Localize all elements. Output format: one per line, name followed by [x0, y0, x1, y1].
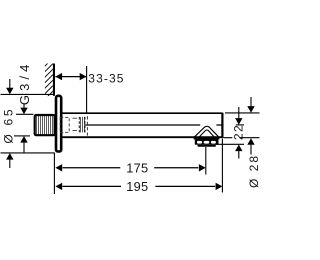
spout tip edge: [221, 113, 223, 138]
dim 175 line left segment: [63, 167, 121, 169]
spout tube top edge: [62, 112, 223, 114]
dim 195 line right segment: [155, 185, 215, 187]
hidden union nut (dashed): [60, 117, 69, 132]
dim 175 line right segment: [154, 167, 198, 169]
dim G3/4 bottom tick: [14, 135, 30, 137]
svg-text:33-35: 33-35: [88, 71, 124, 85]
dim 195 left arrow: [55, 183, 62, 190]
dim Ø65 top extension: [1, 93, 55, 95]
dim 195 line left segment: [63, 185, 122, 187]
svg-text:Ø 65: Ø 65: [1, 107, 15, 144]
threaded nipple G3/4: [35, 115, 55, 135]
svg-text:G3/4: G3/4: [17, 61, 32, 106]
spout tube bottom edge: [62, 136, 223, 138]
dim G3/4 top tick: [16, 113, 33, 115]
wall face line: [53, 64, 55, 96]
dim G3/4 top arrow: [23, 104, 25, 108]
dim 33-35 right arrow: [80, 73, 87, 80]
aerator dome outer: [194, 126, 219, 137]
dim 175 left arrow: [55, 164, 62, 171]
dim 33-35 line: [55, 76, 86, 78]
aerator slot band: [195, 140, 219, 145]
hidden connector dashes: [73, 118, 78, 130]
wall hatch: [45, 64, 53, 97]
dim Ø28 top arrow: [250, 97, 252, 106]
svg-text:175: 175: [126, 160, 148, 175]
dim 22 top arrow: [238, 107, 240, 118]
aerator brim bar: [194, 137, 220, 140]
dim 22 bottom arrow: [235, 145, 242, 152]
dim Ø28 bottom arrow: [247, 138, 254, 145]
dim 22 top tick: [236, 124, 244, 126]
spout tip extension line: [221, 139, 223, 193]
dim 175 right arrow: [199, 164, 206, 171]
dim 195 right arrow: [216, 183, 223, 190]
dim 33-35 left arrow: [55, 73, 62, 80]
hidden pipe end line (dashed): [86, 116, 88, 135]
dim Ø65 top arrow: [9, 79, 11, 88]
dim Ø65 bottom arrow: [6, 153, 13, 160]
aerator slot 1: [197, 141, 202, 144]
dim G3/4 bottom arrow: [20, 136, 27, 143]
aerator slot 3: [211, 141, 216, 144]
dim 22 bottom extension (from aerator): [216, 143, 245, 145]
dim Ø28 bottom extension: [224, 137, 260, 139]
aerator slot 2: [204, 141, 210, 144]
spout tube middle edge: [83, 124, 223, 126]
escutcheon flange: [56, 96, 61, 152]
dim 33-35 extension line: [86, 66, 88, 113]
dim Ø65 bottom extension: [1, 152, 55, 154]
svg-text:Ø 28: Ø 28: [247, 154, 260, 188]
dim Ø28 top extension: [225, 112, 260, 114]
hidden threaded end (dashed block): [79, 117, 85, 132]
aerator bottom lip: [197, 145, 216, 147]
svg-text:195: 195: [126, 179, 148, 194]
aerator dome inner: [199, 130, 215, 137]
aerator center extension line: [205, 147, 207, 175]
wall reference extension line (bottom): [53, 153, 55, 194]
